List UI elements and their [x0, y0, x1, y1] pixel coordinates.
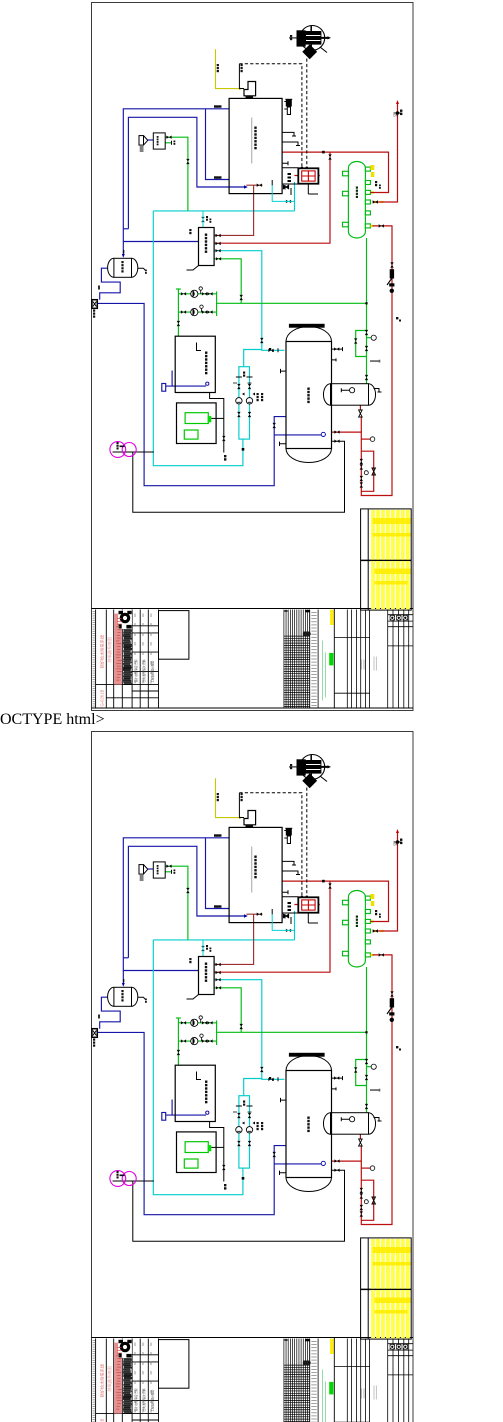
svg-text:锅炉给水除氧系统: 锅炉给水除氧系统 — [99, 635, 106, 669]
svg-text:设计 校核 审定 日期: 设计 校核 审定 日期 — [134, 1388, 138, 1411]
svg-text:G-0261B: G-0261B — [100, 1419, 105, 1422]
svg-text:设计 校核 审定 日期: 设计 校核 审定 日期 — [134, 659, 138, 682]
svg-text:DN: DN — [394, 843, 399, 847]
svg-text:除氧器系统图: 除氧器系统图 — [106, 1366, 113, 1391]
svg-text:比例 图号 版次 页码: 比例 图号 版次 页码 — [142, 659, 146, 682]
svg-text:G-0261B: G-0261B — [100, 690, 105, 707]
svg-text:除氧器系统图: 除氧器系统图 — [106, 637, 113, 662]
svg-text:比例 图号 版次 页码: 比例 图号 版次 页码 — [142, 1388, 146, 1411]
svg-text:DN: DN — [394, 114, 399, 118]
svg-text:锅炉给水除氧系统: 锅炉给水除氧系统 — [99, 1364, 106, 1398]
